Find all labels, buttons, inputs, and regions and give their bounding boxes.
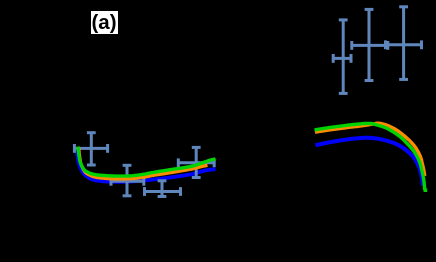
right blue curve bbox=[316, 138, 424, 186]
data point P3 error bars bbox=[145, 181, 181, 197]
green end marker bbox=[424, 188, 428, 192]
data point P4 error bars bbox=[178, 147, 214, 177]
data point P7 error bars bbox=[386, 7, 422, 80]
data point P1 error bars bbox=[74, 133, 107, 165]
data point P2 error bars bbox=[111, 165, 144, 196]
left orange curve bbox=[79, 148, 208, 179]
right orange curve bbox=[315, 123, 425, 176]
left blue curve bbox=[77, 148, 216, 182]
left green curve bbox=[78, 147, 216, 177]
data point P6 error bars bbox=[352, 9, 388, 80]
panel label (a) bbox=[91, 11, 118, 34]
data point P5 error bars bbox=[333, 20, 351, 94]
right green curve bbox=[315, 123, 425, 190]
